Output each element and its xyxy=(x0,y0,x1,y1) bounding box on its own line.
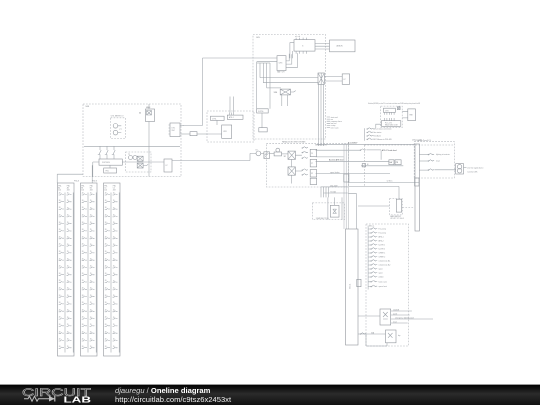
svg-text:Lighting Panel LP-1: Lighting Panel LP-1 xyxy=(417,139,432,142)
svg-text:spare: spare xyxy=(379,272,383,275)
genset controller U10 xyxy=(294,36,315,53)
gen breaker XB1 xyxy=(288,151,295,159)
MCC transformer T5 xyxy=(358,309,433,325)
svg-text:Red dashed (MODBUS) runs from: Red dashed (MODBUS) runs from PLC to eac… xyxy=(368,102,420,105)
svg-text:compressor A-1: compressor A-1 xyxy=(379,260,391,263)
svg-text:480.208V: 480.208V xyxy=(330,185,338,187)
svg-text:P-2 pump: P-2 pump xyxy=(379,233,386,235)
svg-text:PT: PT xyxy=(120,129,122,131)
svg-text:UTIL METER CT: UTIL METER CT xyxy=(111,116,124,118)
HMI box xyxy=(408,109,416,121)
svg-text:hoist crane: hoist crane xyxy=(379,280,387,283)
svg-text:AHU-1: AHU-1 xyxy=(379,236,384,239)
svg-text:spare feeder: spare feeder xyxy=(330,171,340,174)
branch breakers xyxy=(419,153,455,170)
PLC CPU box xyxy=(384,108,396,112)
ATS box c3 xyxy=(222,125,232,138)
sub panel box xyxy=(104,168,117,173)
dashed partition xyxy=(364,145,454,187)
svg-text:AHU-2: AHU-2 xyxy=(379,240,384,243)
bus tap box xyxy=(357,279,361,286)
battery charger VC xyxy=(277,56,288,74)
svg-text:52: 52 xyxy=(284,156,286,158)
svg-text:PNL: PNL xyxy=(106,171,109,173)
svg-text:CHWP-2: CHWP-2 xyxy=(379,257,386,259)
svg-text:djauregu / Oneline diagram: djauregu / Oneline diagram xyxy=(115,386,211,395)
svg-text:120: 120 xyxy=(104,189,107,191)
utility interface box xyxy=(169,123,181,137)
panelboard P3 xyxy=(104,183,121,356)
sensor column xyxy=(302,147,308,176)
transformer cluster H xyxy=(126,152,152,172)
svg-text:BATT CH: BATT CH xyxy=(277,71,285,74)
relay stack xyxy=(310,149,317,184)
riser elbow xyxy=(348,194,356,229)
bus tap box xyxy=(415,178,419,186)
feeder switches xyxy=(98,150,115,159)
pins top xyxy=(296,38,306,40)
svg-text:panel: panel xyxy=(393,314,398,316)
bus tie wires east xyxy=(317,143,415,145)
svg-text:208: 208 xyxy=(67,189,70,191)
long collector wire xyxy=(84,145,180,147)
resistor-diode glyph xyxy=(24,396,55,401)
PLC IO box xyxy=(381,121,400,127)
transformer T3 xyxy=(330,205,339,217)
svg-text:to MCC: to MCC xyxy=(387,180,394,183)
wire from controller left xyxy=(290,43,294,59)
dashed enclosure G xyxy=(83,104,181,177)
T4 downstream risers xyxy=(319,84,324,146)
svg-text:CHWP-1: CHWP-1 xyxy=(379,253,386,255)
dashed box D xyxy=(381,106,403,128)
svg-text:RACK 485 COM: RACK 485 COM xyxy=(385,123,398,126)
gen breaker XB2 xyxy=(288,167,295,175)
svg-text:Comms LINK: Comms LINK xyxy=(467,172,478,174)
T4 primary feeds xyxy=(260,78,318,83)
svg-text:kW: kW xyxy=(390,162,393,164)
dc sub box xyxy=(259,128,267,132)
svg-text:25: 25 xyxy=(311,153,313,155)
svg-text:fan EF-1: fan EF-1 xyxy=(379,245,386,247)
ATS logic box c1 xyxy=(211,116,225,120)
svg-text:not in auto: not in auto xyxy=(331,126,339,129)
dc panel stub row xyxy=(257,109,269,113)
svg-text:ANNUN: ANNUN xyxy=(337,45,344,48)
MCC transformer T6 xyxy=(358,330,401,346)
panelboard P2 xyxy=(81,183,98,356)
svg-text:P-1 pump: P-1 pump xyxy=(379,229,386,231)
remote annunciator box xyxy=(330,40,356,52)
CircuitLab logo wordmark xyxy=(22,387,91,405)
svg-text:compressor A-2: compressor A-2 xyxy=(379,264,391,267)
svg-text:CTRL: CTRL xyxy=(212,118,216,120)
svg-text:ATS-1 status connection: ATS-1 status connection xyxy=(373,128,391,131)
svg-text:http://circuitlab.com/c9tsz6x2: http://circuitlab.com/c9tsz6x2453xt xyxy=(115,395,232,404)
feeders from switchboard xyxy=(57,165,92,183)
meter boxes xyxy=(389,160,394,165)
svg-text:T2: T2 xyxy=(128,154,130,156)
svg-text:UTILITY CT 200:5: UTILITY CT 200:5 xyxy=(390,218,404,220)
svg-text:DCPNL: DCPNL xyxy=(258,111,264,113)
svg-text:recpt: recpt xyxy=(436,160,440,163)
svg-text:MCC-1: MCC-1 xyxy=(369,226,374,228)
svg-text:Fire Alarm: Fire Alarm xyxy=(373,135,381,138)
svg-text:MCC Alarms to PNL-485: MCC Alarms to PNL-485 xyxy=(373,138,392,141)
svg-text:32: 32 xyxy=(311,173,313,175)
secondary west wire xyxy=(257,61,277,63)
svg-text:120: 120 xyxy=(81,189,84,191)
five dc distribution risers xyxy=(257,62,270,109)
ATS box c2 xyxy=(227,115,243,119)
svg-text:208: 208 xyxy=(90,189,93,191)
svg-text:G1: G1 xyxy=(255,149,257,151)
wires charger pins up to controller xyxy=(288,53,298,67)
svg-text:27: 27 xyxy=(311,163,313,165)
svg-text:recpt: recpt xyxy=(393,321,397,324)
panelboard P1 xyxy=(58,183,75,356)
svg-text:lighting int exterior: lighting int exterior xyxy=(436,153,450,156)
panelboard P3 breaker rows xyxy=(105,193,118,349)
svg-text:52G: 52G xyxy=(274,92,278,94)
svg-text:120: 120 xyxy=(58,189,61,191)
svg-text:HMI: HMI xyxy=(410,115,414,117)
svg-text:MCC-1: MCC-1 xyxy=(350,284,352,289)
generator G1 xyxy=(256,151,261,156)
svg-text:spare: spare xyxy=(379,268,383,271)
svg-text:PARALLELING SWITCHGEAR: PARALLELING SWITCHGEAR xyxy=(282,141,306,144)
wire to generator xyxy=(172,153,256,160)
svg-text:52: 52 xyxy=(139,113,141,115)
interconnect small box xyxy=(181,133,190,135)
feeders to panels below xyxy=(93,162,99,177)
svg-text:Gen status: Gen status xyxy=(373,131,381,134)
svg-text:Bus A to ATS feed: Bus A to ATS feed xyxy=(329,159,343,162)
pins bottom xyxy=(296,51,306,54)
dashed box C xyxy=(207,111,254,142)
dashed enclosure B xyxy=(266,143,348,187)
metering transformer sub-box xyxy=(111,116,126,139)
svg-text:120/208: 120/208 xyxy=(393,310,399,312)
panelboard P1 breaker rows xyxy=(59,193,72,349)
station service transformer T4 xyxy=(318,73,324,84)
svg-text:emergency lighting panel: emergency lighting panel xyxy=(395,317,414,320)
svg-text:XFMR SECTION: XFMR SECTION xyxy=(316,218,330,220)
long wire to west riser xyxy=(183,58,277,126)
T4 secondary box xyxy=(342,74,349,84)
svg-text:ATS-1: ATS-1 xyxy=(229,116,234,119)
svg-text:GEN SECTION: GEN SECTION xyxy=(315,144,327,146)
feeder bus xyxy=(367,226,369,290)
svg-text:Bus A 480V: Bus A 480V xyxy=(348,142,358,145)
svg-text:75 kVA: 75 kVA xyxy=(330,190,336,193)
svg-text:space heat: space heat xyxy=(379,285,388,288)
dashed enclosure A xyxy=(253,35,326,140)
svg-text:fan EF-2: fan EF-2 xyxy=(379,249,386,251)
svg-text:ATS-1 N side feed: ATS-1 N side feed xyxy=(382,149,397,152)
svg-text:welder: welder xyxy=(379,276,384,279)
svg-text:DIST BUS: DIST BUS xyxy=(102,162,111,164)
aux contact list xyxy=(327,116,343,130)
vertical band risers to MCC xyxy=(344,144,348,230)
pole transformer xyxy=(456,164,484,174)
motor starter M1 xyxy=(276,148,280,152)
current transformer block xyxy=(264,152,270,159)
svg-text:208: 208 xyxy=(113,189,116,191)
IO pins xyxy=(385,112,395,114)
status input list xyxy=(365,128,392,142)
panelboard P2 breaker rows xyxy=(82,193,95,349)
svg-text:a b c d: a b c d xyxy=(295,36,300,38)
vertical bus R2 xyxy=(415,144,419,231)
svg-text:LAB: LAB xyxy=(64,395,92,405)
footer bar xyxy=(0,385,540,405)
svg-text:dry: dry xyxy=(398,334,401,337)
lighting panel K xyxy=(164,159,172,172)
dashed box TC xyxy=(312,203,344,220)
wires controller to annunciator xyxy=(315,43,330,49)
PLC left drop xyxy=(376,124,381,128)
distribution bus box xyxy=(99,159,122,165)
svg-text:one line signal device: one line signal device xyxy=(467,167,483,169)
west riser link xyxy=(180,125,184,127)
main breaker CB-G xyxy=(267,88,296,106)
comms icon xyxy=(397,107,400,110)
main breaker 52M xyxy=(139,104,155,177)
feeder rows xyxy=(368,227,390,288)
